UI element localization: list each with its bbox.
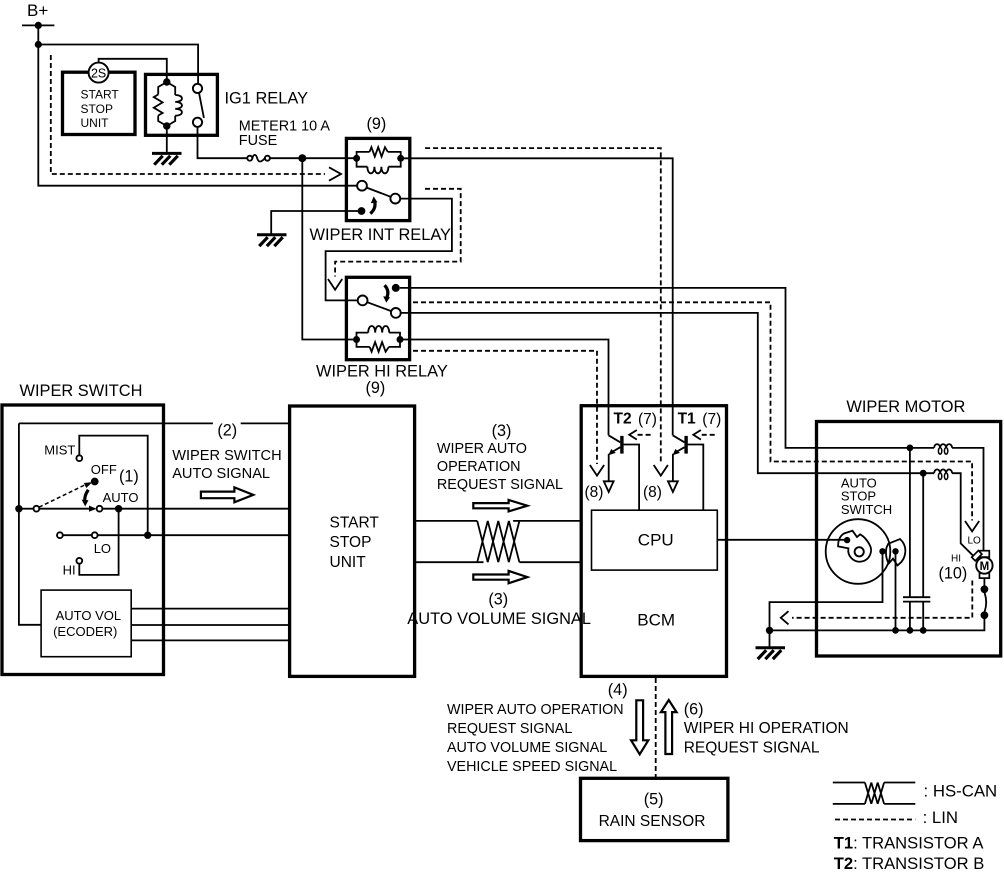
wire wiper switch bus (2) to start stop unit <box>19 422 290 424</box>
transistor T1 <box>668 435 703 510</box>
arrowhead LIN into wiper hi relay <box>328 279 342 290</box>
svg-text:: HS-CAN: : HS-CAN <box>924 781 998 800</box>
svg-text:T2: T2 <box>614 410 632 427</box>
wiper int relay coil+resistor parallel branch <box>357 147 401 173</box>
wire CPU to auto stop switch <box>717 539 845 541</box>
arrowhead (8) right <box>654 465 668 476</box>
junction dot LO/MIST <box>144 532 151 539</box>
svg-text:: LIN: : LIN <box>923 808 958 827</box>
connector 2S <box>89 63 109 83</box>
junction dot at fuse output <box>298 154 306 162</box>
capacitor C1 <box>903 448 917 631</box>
svg-text:WIPER AUTO: WIPER AUTO <box>437 441 527 457</box>
svg-text:UNIT: UNIT <box>81 116 110 130</box>
svg-text:WIPER SWITCH: WIPER SWITCH <box>20 382 143 400</box>
svg-text:CPU: CPU <box>638 531 674 550</box>
junction dot ground rail left <box>766 627 773 634</box>
svg-text:AUTO VOLUME SIGNAL: AUTO VOLUME SIGNAL <box>447 740 607 756</box>
T1 base LIN arrow <box>701 434 715 436</box>
LIN dashed int relay to hi relay <box>335 189 461 277</box>
contact AUTO <box>97 506 103 512</box>
wire 2S to IG1 relay coil <box>99 59 167 82</box>
legend HS-CAN symbol <box>833 783 916 804</box>
wiper switch box <box>2 405 164 675</box>
wire follower 2 to ground rail <box>895 551 897 630</box>
svg-text:(3): (3) <box>488 591 508 609</box>
signal arrow (3) top <box>473 500 527 512</box>
wire LO to start stop unit <box>98 534 290 536</box>
hi relay pin dot left <box>353 336 360 343</box>
contact LO right <box>92 532 98 538</box>
arrowhead LIN left <box>781 611 789 624</box>
wiper hi relay switch <box>358 284 401 318</box>
svg-text:HI: HI <box>63 563 76 578</box>
wiper hi relay coil+resistor parallel branch <box>357 326 401 352</box>
ground (wiper int relay) <box>257 235 287 246</box>
CPU box <box>592 510 718 570</box>
ground (wiper motor) <box>756 648 786 659</box>
LIN dashed BCM to rain sensor <box>655 678 657 778</box>
svg-text:2S: 2S <box>91 66 106 80</box>
svg-text:IG1 RELAY: IG1 RELAY <box>225 89 309 107</box>
wire rail dot to pivot <box>19 508 34 510</box>
svg-text:START: START <box>81 87 120 101</box>
IG1 relay box <box>146 74 218 135</box>
wire int relay output to T1 emitter <box>401 158 673 435</box>
svg-text:STOP: STOP <box>81 102 113 116</box>
wire park switch to ground rail <box>770 615 985 630</box>
svg-text:STOP: STOP <box>330 534 372 551</box>
LIN dashed hi relay to BCM (8) <box>413 351 597 464</box>
wiper arm dashed to OFF <box>39 485 86 508</box>
junction dot AUTO <box>115 505 122 512</box>
svg-text:START: START <box>330 514 380 531</box>
contact MIST <box>76 455 82 461</box>
wire fuse to wiper int relay <box>270 157 357 159</box>
wire hi relay contact to wiper motor armature <box>400 288 984 551</box>
wiper arm solid to AUTO <box>39 508 89 510</box>
int relay pin dot right <box>397 155 404 162</box>
int relay pin dot left <box>353 155 360 162</box>
svg-text:OFF: OFF <box>91 462 117 477</box>
follower contact blob <box>886 539 905 565</box>
svg-text:METER1 10 A: METER1 10 A <box>239 119 331 135</box>
svg-text:M: M <box>980 561 990 573</box>
signal arrow (2) <box>201 487 253 502</box>
svg-text:(9): (9) <box>367 115 387 133</box>
wiper hi relay box <box>346 277 409 359</box>
svg-text:T2: TRANSISTOR B: T2: TRANSISTOR B <box>834 854 985 873</box>
svg-text:BCM: BCM <box>637 611 675 630</box>
T2 base LIN arrow <box>637 434 651 436</box>
wire wiper switch inner rail <box>19 423 41 624</box>
park switch <box>981 585 989 619</box>
svg-text:AUTO: AUTO <box>103 490 139 505</box>
wire IG1 switch to fuse <box>198 127 248 158</box>
fuse METER1 10A <box>247 155 270 162</box>
contact HI <box>76 558 82 564</box>
svg-text:WIPER MOTOR: WIPER MOTOR <box>846 398 965 416</box>
BCM box <box>581 406 726 677</box>
svg-text:LO: LO <box>94 541 111 556</box>
wire AUTO to start stop unit <box>102 508 289 510</box>
wire hi relay contact to wiper motor HI brush <box>401 313 974 556</box>
svg-text:(2): (2) <box>217 422 237 440</box>
svg-text:SWITCH: SWITCH <box>841 502 892 517</box>
svg-text:(8): (8) <box>643 484 662 501</box>
svg-text:(6): (6) <box>684 701 704 719</box>
arrowhead LIN into wiper int relay <box>329 167 341 180</box>
svg-text:REQUEST SIGNAL: REQUEST SIGNAL <box>447 721 572 737</box>
ground (IG1 relay) <box>152 153 182 164</box>
wire int relay switch to hi relay switch <box>326 199 452 301</box>
auto stop cam <box>838 531 871 562</box>
signal arrow (4) down <box>631 700 648 754</box>
svg-text:UNIT: UNIT <box>330 554 367 571</box>
motor M <box>972 551 993 578</box>
auto vol encoder box <box>41 590 131 657</box>
wires auto vol to start stop unit <box>131 609 289 641</box>
junction dot B+ branch <box>35 41 42 48</box>
junction dots on ground rail <box>892 627 899 634</box>
wire int relay switch common to ground <box>271 211 361 234</box>
junction dot coil1 input <box>907 445 914 452</box>
arrowhead (8) left <box>590 465 604 476</box>
svg-text:AUTO SIGNAL: AUTO SIGNAL <box>172 466 270 482</box>
svg-text:OPERATION: OPERATION <box>437 459 521 475</box>
wire MIST to LO junction <box>79 436 147 532</box>
svg-text:(7): (7) <box>702 411 721 428</box>
svg-text:AUTO VOL: AUTO VOL <box>56 608 122 623</box>
junction dot wiper pivot rail <box>15 505 22 512</box>
wire motor to park switch <box>983 578 985 586</box>
junction dot coil2 input <box>920 470 927 477</box>
svg-text:(9): (9) <box>366 379 386 397</box>
LIN dashed motor return <box>792 581 972 618</box>
svg-text:REQUEST SIGNAL: REQUEST SIGNAL <box>437 477 563 493</box>
wiper pivot contact <box>34 506 40 512</box>
wire B+ rail to wiper int relay switch <box>38 25 357 185</box>
hi relay pin dot right <box>397 336 404 343</box>
svg-text:(4): (4) <box>608 681 628 699</box>
legend LIN dashed <box>835 819 915 821</box>
signal arrow (6) up <box>661 700 677 754</box>
svg-text:WIPER INT RELAY: WIPER INT RELAY <box>310 226 452 244</box>
svg-text:LO: LO <box>968 536 982 547</box>
svg-text:T1: TRANSISTOR A: T1: TRANSISTOR A <box>834 834 985 853</box>
wire follower to ground <box>770 551 883 647</box>
cam contact dot <box>844 537 850 543</box>
contact LO left <box>57 532 63 538</box>
signal arrow (3) bottom <box>473 571 527 583</box>
transistor T2 <box>604 435 639 510</box>
arrowhead LO LIN <box>965 521 979 531</box>
svg-text:(ECODER): (ECODER) <box>53 624 117 639</box>
IG1 relay switch <box>193 84 204 127</box>
wire LO contacts <box>63 534 92 536</box>
follower contact dots <box>879 548 885 554</box>
svg-text:MIST: MIST <box>44 443 75 458</box>
IG1 coil top pin dot <box>163 78 170 85</box>
IG1 relay coil+resistor parallel branch <box>154 82 182 126</box>
wiper motor box <box>817 422 1001 657</box>
svg-text:VEHICLE SPEED SIGNAL: VEHICLE SPEED SIGNAL <box>447 759 617 775</box>
B+ terminal bar <box>22 24 54 26</box>
start stop unit main box <box>290 406 415 676</box>
wire IG1 coil to ground <box>166 126 168 152</box>
cam hub <box>855 547 864 556</box>
svg-text:(10): (10) <box>939 565 968 583</box>
svg-text:WIPER HI OPERATION: WIPER HI OPERATION <box>684 720 849 737</box>
wiper int relay switch <box>357 181 400 215</box>
svg-text:B+: B+ <box>27 1 48 20</box>
armature winding coil 2 <box>934 469 952 479</box>
rain sensor box <box>581 778 728 840</box>
rotation arrow (1) <box>85 490 89 501</box>
svg-text:REQUEST SIGNAL: REQUEST SIGNAL <box>684 739 820 756</box>
wire LIN dashed from B+ rail to wiper int relay <box>51 55 325 174</box>
svg-text:(1): (1) <box>119 467 139 485</box>
armature winding coil 1 <box>934 444 952 454</box>
start stop unit (upper) box <box>63 72 136 134</box>
wire hi relay coil to T2 emitter <box>400 340 609 436</box>
svg-text:FUSE: FUSE <box>239 133 277 149</box>
svg-text:(3): (3) <box>492 422 512 440</box>
capacitor C2 <box>916 473 930 630</box>
svg-text:HI: HI <box>951 554 961 565</box>
svg-text:RAIN SENSOR: RAIN SENSOR <box>599 813 706 830</box>
wire fuse junction down to wiper hi relay coil <box>302 158 353 339</box>
IG1 coil bottom pin dot <box>163 122 170 129</box>
svg-text:AUTO VOLUME SIGNAL: AUTO VOLUME SIGNAL <box>407 610 591 628</box>
LIN dashed int relay to BCM (8) <box>425 148 661 464</box>
contact OFF dot <box>91 478 99 486</box>
arrowhead at AUTO <box>89 506 97 512</box>
svg-text:WIPER AUTO OPERATION: WIPER AUTO OPERATION <box>447 702 624 718</box>
svg-text:T1: T1 <box>678 410 696 427</box>
wiper int relay box <box>346 138 409 220</box>
svg-text:(7): (7) <box>638 411 657 428</box>
auto stop switch disc <box>826 519 891 584</box>
junction dot on B+ bar <box>35 22 42 29</box>
svg-text:(8): (8) <box>585 484 604 501</box>
HS-CAN twisted pair to BCM <box>415 521 582 562</box>
svg-text:WIPER HI RELAY: WIPER HI RELAY <box>316 362 448 380</box>
LIN dashed hi relay to wiper motor LO <box>413 302 972 520</box>
arrowhead at OFF <box>84 482 92 488</box>
svg-text:WIPER SWITCH: WIPER SWITCH <box>172 448 281 464</box>
wire B+ to IG1 relay switch <box>38 45 198 85</box>
wire AUTO junction to HI contact <box>79 509 118 575</box>
svg-text:(5): (5) <box>644 791 664 809</box>
